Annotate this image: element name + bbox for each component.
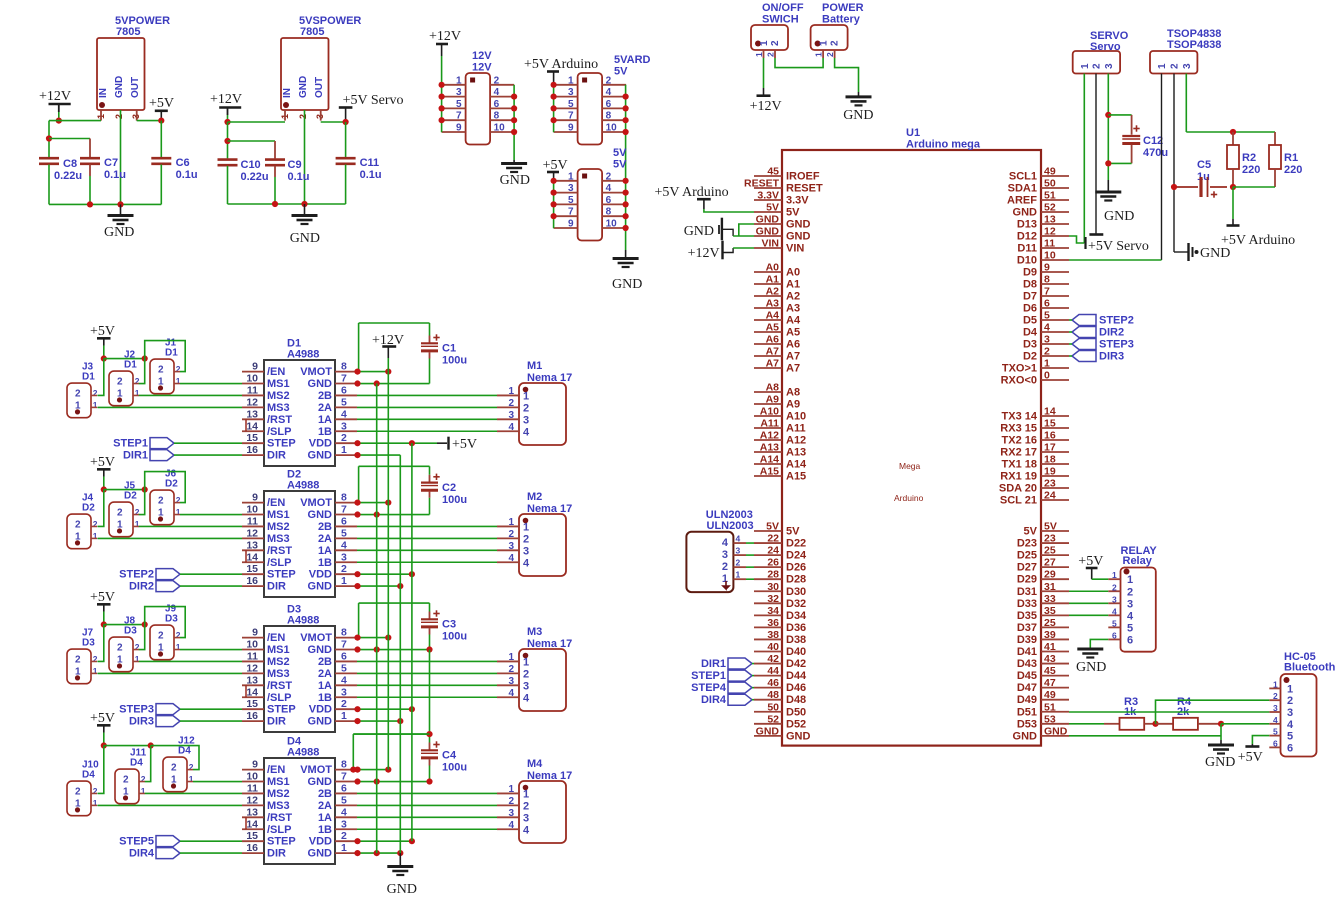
wire switch pin2 to battery pin1 [775,58,823,68]
header pin 3 [442,96,466,98]
resistor R2 [1232,132,1234,145]
svg-text:DIR4: DIR4 [701,694,727,706]
svg-text:RX2 17: RX2 17 [1000,447,1037,459]
svg-text:8: 8 [494,111,500,122]
svg-text:2: 2 [75,388,81,399]
svg-text:SCL 21: SCL 21 [1000,495,1037,507]
svg-text:A4988: A4988 [287,747,319,759]
svg-text:2: 2 [341,830,347,842]
M2 pin 3 [497,549,519,551]
HC-05 pin 3 [1269,711,1280,713]
svg-text:2A: 2A [318,402,332,414]
wire +5V to jumpers [103,733,105,746]
svg-text:GND: GND [308,581,333,593]
wire to left jumper pin2 [98,359,104,396]
svg-text:D29: D29 [1017,574,1037,586]
svg-text:A7: A7 [766,346,780,358]
svg-text:1: 1 [1127,574,1133,586]
svg-text:2: 2 [117,508,123,519]
svg-text:4: 4 [1127,610,1134,622]
svg-text:GND: GND [756,214,780,226]
M4 pin 4 [497,828,519,830]
svg-text:MS3: MS3 [267,533,290,545]
U1 left pin A13 [754,451,782,453]
U1 left pin 34 [754,614,782,616]
svg-text:14: 14 [1044,406,1056,418]
svg-text:1: 1 [508,784,514,795]
D3 pin 15 STEP [242,708,264,710]
svg-text:VDD: VDD [309,569,332,581]
header pin 9 [442,131,466,133]
svg-text:MS2: MS2 [267,656,290,668]
D1 pin 2 VDD [335,442,357,444]
pin stubs [822,50,824,58]
D3 pin 5 2A [335,672,357,674]
svg-text:+5V Servo: +5V Servo [1088,239,1149,254]
svg-text:/SLP: /SLP [267,426,291,438]
svg-text:GND: GND [308,450,333,462]
svg-text:GND: GND [843,108,873,123]
svg-text:1: 1 [189,774,194,784]
svg-text:STEP3: STEP3 [1099,339,1134,351]
svg-text:VDD: VDD [309,836,332,848]
ground symbol header C [613,257,639,260]
svg-text:1: 1 [176,642,181,652]
svg-text:GND: GND [1076,660,1106,675]
U1 left pin A0 [754,271,782,273]
svg-text:A1: A1 [786,279,800,291]
svg-text:1: 1 [93,666,98,676]
svg-text:Nema 17: Nema 17 [527,503,572,515]
svg-text:MS3: MS3 [267,402,290,414]
svg-text:2: 2 [1044,346,1050,358]
svg-text:MS1: MS1 [267,776,290,788]
U1 right pin 29 [1041,578,1069,580]
svg-text:15: 15 [246,432,258,444]
svg-text:GND: GND [308,776,333,788]
svg-text:A4988: A4988 [287,615,319,627]
wire 2B/2A/1A/1B to M2 [357,561,497,563]
net label flag DIR4 [156,848,180,859]
svg-text:1: 1 [508,652,514,663]
svg-text:1B: 1B [318,824,332,836]
svg-text:A14: A14 [786,459,807,471]
net label flag DIR2 [156,581,180,592]
tsop pin3 wire [1185,74,1187,133]
D4 pin 5 2A [335,804,357,806]
svg-text:4: 4 [523,692,530,704]
svg-text:DIR1: DIR1 [123,450,148,462]
svg-text:6: 6 [1044,298,1050,310]
svg-text:DIR: DIR [267,716,286,728]
U1 left pin A8 [754,391,782,393]
net label flag STEP1 [728,670,752,681]
svg-text:1: 1 [456,75,462,86]
svg-text:+5V: +5V [1238,750,1263,765]
U1 right pin 35 [1041,614,1069,616]
wire right side down to GND [513,85,515,160]
svg-text:M1: M1 [527,360,542,372]
svg-text:D10: D10 [1017,255,1037,267]
svg-text:46: 46 [767,677,779,689]
svg-text:100u: 100u [442,631,467,643]
5VPOWER pin2 GND wire [120,110,122,204]
pin stubs [763,50,765,58]
U1 right pin 19 [1041,475,1069,477]
U1 right pin 33 [1041,602,1069,604]
svg-text:2: 2 [171,763,177,774]
svg-text:D26: D26 [786,562,806,574]
svg-text:1: 1 [176,376,181,386]
svg-text:14: 14 [246,551,258,563]
svg-text:11: 11 [247,515,258,527]
svg-text:48: 48 [767,689,779,701]
capacitor C3 (polarized) [433,613,439,615]
U1 right pin 47 [1041,687,1069,689]
wire +5V to jumpers [103,477,105,490]
svg-text:D43: D43 [1017,658,1037,670]
connector 5V header [578,169,603,241]
svg-text:2: 2 [494,75,500,86]
svg-text:23: 23 [1044,478,1056,490]
svg-text:C10: C10 [241,159,261,171]
svg-text:GND: GND [684,224,714,239]
svg-text:C11: C11 [360,157,380,169]
svg-text:D4: D4 [82,770,95,781]
svg-text:STEP2: STEP2 [1099,315,1134,327]
svg-text:12: 12 [1044,226,1056,238]
C2 bottom lead [429,492,431,498]
svg-text:MS2: MS2 [267,521,290,533]
svg-text:42: 42 [767,653,779,665]
svg-text:DIR: DIR [267,848,286,860]
svg-text:C5: C5 [1197,159,1211,171]
svg-text:GND: GND [308,716,333,728]
svg-text:A9: A9 [766,394,780,406]
ground symbol battery [846,95,872,98]
D4 pin 13 /RST [242,816,264,818]
svg-text:DIR4: DIR4 [129,848,155,860]
svg-text:2B: 2B [318,788,332,800]
svg-text:A15: A15 [760,466,779,478]
svg-text:D4: D4 [178,746,191,757]
svg-text:10: 10 [494,123,506,134]
svg-text:6: 6 [606,195,612,206]
jumper J10 [67,781,91,816]
tsop pin2 to GND flag [1174,251,1188,253]
wire rail to pin1 [49,120,101,122]
svg-text:C6: C6 [176,157,190,169]
row8 wire [357,502,388,504]
svg-text:GND: GND [290,231,320,246]
svg-text:Arduino: Arduino [894,493,924,503]
svg-text:D40: D40 [786,646,806,658]
svg-text:1: 1 [523,788,529,800]
svg-text:0.1u: 0.1u [176,169,198,181]
svg-text:DIR1: DIR1 [701,658,726,670]
svg-text:A7: A7 [786,363,800,375]
wire to mid jumper pin2 [139,625,145,650]
U1 left pin 26 [754,566,782,568]
D1 pin 12 MS3 [242,406,264,408]
svg-text:10: 10 [246,639,258,651]
svg-text:/RST: /RST [267,812,292,824]
svg-text:100u: 100u [442,355,467,367]
svg-text:4: 4 [606,183,612,194]
wire 2B/2A/1A/1B to M1 [357,418,497,420]
svg-text:3: 3 [523,812,529,824]
svg-text:Arduino mega: Arduino mega [906,139,981,151]
wire R2-R1 bottom [1233,186,1275,188]
svg-text:5: 5 [568,195,574,206]
svg-text:/RST: /RST [267,414,292,426]
svg-text:4: 4 [508,688,514,699]
node header B left [551,117,557,123]
svg-text:8: 8 [606,207,612,218]
D3 pin 9 /EN [242,637,264,639]
U1 right pin 53 [1041,723,1069,725]
svg-text:SWICH: SWICH [762,14,799,26]
node R2 bottom [1230,184,1236,190]
svg-text:9: 9 [1044,262,1050,274]
net label flag STEP2 [1072,315,1096,326]
svg-text:/EN: /EN [267,366,285,378]
svg-text:GND: GND [786,219,811,231]
svg-text:1: 1 [722,573,728,585]
svg-text:OUT: OUT [314,77,325,98]
svg-text:5: 5 [341,396,347,408]
svg-text:GND: GND [1044,725,1068,737]
svg-text:STEP: STEP [267,836,296,848]
wire J pin1 to MS1 [180,649,242,651]
header pin 1 [554,180,578,182]
D2 pin 14 /SLP [242,561,264,563]
svg-text:M2: M2 [527,491,542,503]
C10 lead [227,122,229,158]
wire J pin1 to MS3 [98,537,243,539]
svg-text:2: 2 [523,800,529,812]
svg-text:22: 22 [767,533,779,545]
svg-text:5: 5 [456,99,462,110]
svg-text:1B: 1B [318,692,332,704]
node header B left [551,82,557,88]
M4 pin 2 [497,804,519,806]
+12V bus vertical [387,372,389,770]
svg-text:DIR3: DIR3 [1099,351,1124,363]
svg-text:44: 44 [767,665,779,677]
svg-text:Nema 17: Nema 17 [527,372,572,384]
svg-text:4: 4 [341,539,347,551]
connector TSOP4838 [1150,51,1197,74]
+5V bus vertical [411,443,413,841]
svg-text:+5V: +5V [149,96,174,111]
node header A right [511,117,517,123]
svg-text:1: 1 [1287,683,1293,695]
U1 left pin GND [754,235,782,237]
GND stem [120,204,122,215]
C9 bottom lead [274,166,276,177]
svg-text:1: 1 [341,710,347,722]
node header A right [511,94,517,100]
U1 right pin 51 [1041,199,1069,201]
svg-text:DIR2: DIR2 [1099,327,1124,339]
svg-text:2: 2 [298,114,308,119]
connector ON/OFF SWICH [751,25,788,50]
svg-text:2: 2 [508,664,514,675]
header pin 5 [442,107,466,109]
loop over right jumper [151,746,199,770]
svg-text:13: 13 [246,674,258,686]
svg-text:+5V: +5V [90,455,115,470]
svg-text:2: 2 [141,774,146,784]
svg-text:5: 5 [341,794,347,806]
D2 pin 2 VDD [335,573,357,575]
svg-text:C12: C12 [1143,135,1163,147]
svg-text:+5V Arduino: +5V Arduino [524,57,598,72]
svg-text:R1: R1 [1284,152,1298,164]
VDD row wire [357,840,412,842]
svg-text:+5V: +5V [90,324,115,339]
svg-text:D6: D6 [1023,303,1037,315]
U1 right pin 17 [1041,451,1069,453]
jumper J12 [163,757,187,792]
svg-text:D51: D51 [1017,706,1037,718]
svg-text:1: 1 [93,531,98,541]
svg-text:5V: 5V [613,147,627,159]
svg-text:/EN: /EN [267,632,285,644]
node header B right [623,117,629,123]
svg-text:26: 26 [767,557,779,569]
svg-text:Relay: Relay [1123,555,1153,567]
U1 right pin 45 [1041,675,1069,677]
svg-text:M4: M4 [527,758,543,770]
svg-text:0.1u: 0.1u [104,169,126,181]
svg-text:9: 9 [252,361,258,373]
U1 right pin 27 [1041,566,1069,568]
svg-text:ON/OFF: ON/OFF [762,2,804,14]
header pin 6 [602,107,626,109]
U1 left pin A12 [754,439,782,441]
svg-text:+5V: +5V [452,437,477,452]
node: +12V rail [56,118,62,124]
svg-text:5V: 5V [786,526,800,538]
svg-text:31: 31 [1044,581,1056,593]
svg-text:1: 1 [523,521,529,533]
svg-text:16: 16 [246,842,258,854]
svg-text:A1: A1 [766,274,780,286]
svg-text:5: 5 [341,662,347,674]
svg-text:A10: A10 [786,411,806,423]
svg-text:7: 7 [568,207,574,218]
header pin 6 [490,107,514,109]
svg-text:D3: D3 [165,614,178,625]
D2 pin 5 2A [335,537,357,539]
wire J pin1 to MS1 [193,781,242,783]
svg-text:2: 2 [1092,63,1103,69]
svg-text:32: 32 [767,593,779,605]
svg-text:RESET: RESET [786,183,823,195]
svg-text:3: 3 [508,541,514,552]
U1 left pin 5V [754,530,782,532]
svg-text:A9: A9 [786,399,800,411]
svg-text:TSOP4838: TSOP4838 [1167,39,1221,51]
svg-text:A6: A6 [766,334,780,346]
svg-text:7: 7 [341,504,347,516]
svg-text:14: 14 [246,686,258,698]
node R2 top [1230,129,1236,135]
svg-text:DIR: DIR [267,581,286,593]
svg-text:2: 2 [75,519,81,530]
svg-text:A13: A13 [760,442,779,454]
D4 pin 15 STEP [242,840,264,842]
svg-text:2: 2 [176,364,181,374]
HC-05 pin 6 [1269,746,1280,748]
VDD row wire [357,708,412,710]
U1 right pin 43 [1041,663,1069,665]
D2 pin 3 1B [335,561,357,563]
svg-text:10: 10 [1044,250,1056,262]
jumper J8 [109,637,133,672]
node header A left [439,117,445,123]
U1 right pin 8 [1041,283,1069,285]
svg-text:15: 15 [1044,418,1056,430]
row7 wire [357,383,430,385]
svg-text:A7: A7 [786,351,800,363]
U1 left pin 22 [754,542,782,544]
D2 pin 15 STEP [242,573,264,575]
HC-05 pin 1 [1269,687,1280,689]
svg-text:D41: D41 [1017,646,1037,658]
node C11 [343,119,349,125]
ULN2003 pin 2 [734,566,747,568]
M1 pin 2 [497,406,519,408]
svg-text:2: 2 [523,402,529,414]
ground symbol servo [1095,191,1121,194]
jumper J3 [67,383,91,418]
wire GND pin to GND symbol [1069,735,1221,737]
svg-text:A3: A3 [786,303,800,315]
svg-text:1: 1 [523,656,529,668]
svg-text:49: 49 [1044,166,1056,178]
wire 2B/2A/1A/1B to M4 [357,828,497,830]
wire 2B/2A/1A/1B to M4 [357,804,497,806]
svg-text:STEP: STEP [267,569,296,581]
header pin 10 [602,227,626,229]
U1 right pin 7 [1041,295,1069,297]
header pin 10 [602,131,626,133]
U1 left pin 38 [754,638,782,640]
node C12 bottom [1105,160,1111,166]
wire J pin1 to MS1 [180,383,242,385]
svg-text:D1: D1 [82,372,95,383]
svg-text:1: 1 [1080,63,1091,69]
node header C right [623,190,629,196]
svg-text:3: 3 [523,414,529,426]
svg-text:Battery: Battery [822,14,861,26]
svg-text:+12V: +12V [429,29,461,44]
svg-text:2: 2 [135,376,140,386]
svg-text:C1: C1 [442,343,456,355]
jumper J9 [150,625,174,660]
U1 left pin 3.3V [754,199,782,201]
svg-text:6: 6 [341,515,347,527]
node header C right [623,201,629,207]
U1 right pin 31 [1041,590,1069,592]
svg-text:D28: D28 [786,574,806,586]
D1 pin 9 /EN [242,371,264,373]
net label flag DIR1 [150,450,174,461]
servo pin2 wire [1095,74,1097,230]
